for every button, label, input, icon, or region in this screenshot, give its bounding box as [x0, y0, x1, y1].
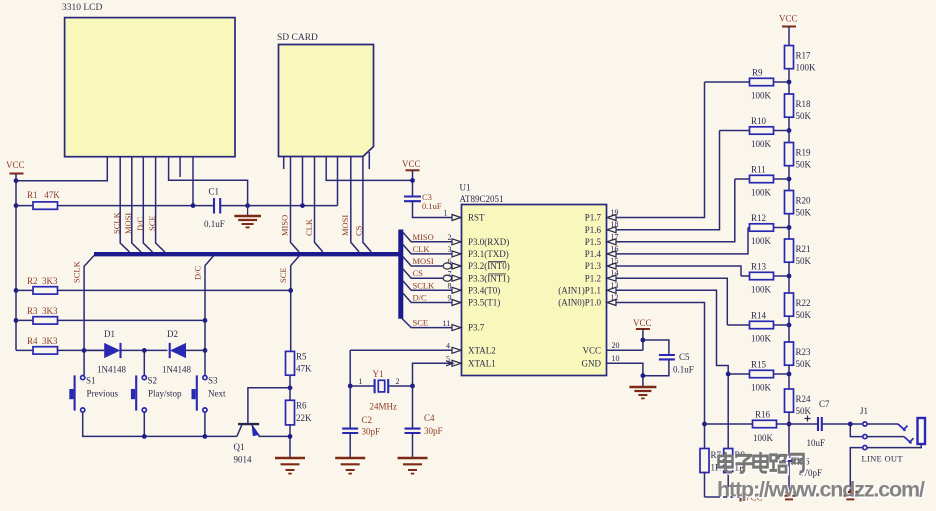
wire SCE vertical from bus	[291, 256, 300, 352]
wire D/C vertical from bus	[205, 256, 214, 376]
svg-text:30pF: 30pF	[424, 426, 443, 436]
svg-text:50K: 50K	[796, 111, 812, 121]
svg-text:R6: R6	[296, 401, 307, 411]
svg-text:P1.4: P1.4	[585, 249, 602, 259]
capacitor C5 0.1uF	[643, 340, 694, 376]
svg-text:VCC: VCC	[402, 159, 421, 169]
svg-text:R12: R12	[751, 213, 766, 223]
svg-text:100K: 100K	[751, 139, 772, 149]
svg-text:P1.5: P1.5	[585, 237, 602, 247]
resistor R23	[785, 342, 812, 389]
watermark URL http://www.cndzz.com/	[717, 477, 927, 503]
power symbol VCC (ladder top)	[779, 14, 798, 46]
node C7 / J1 junction	[848, 422, 853, 427]
pin wedge P1.5	[607, 239, 616, 245]
svg-text:GND: GND	[582, 359, 602, 369]
svg-text:R2 3K3: R2 3K3	[27, 276, 58, 286]
resistor R11	[735, 165, 789, 198]
pin wedge P3.0	[452, 239, 461, 245]
ground (C6)	[778, 492, 800, 499]
resistor R12	[748, 213, 789, 246]
resistor R21	[785, 239, 812, 293]
wire bus entry MOSI to P3.2	[403, 257, 443, 267]
pin wedge P3.3	[452, 275, 461, 281]
wire P1.3 to R13	[616, 266, 741, 276]
crystal Y1 24MHz	[350, 369, 412, 412]
node VCC rail / R1 junction	[14, 203, 19, 208]
svg-text:100K: 100K	[751, 285, 772, 295]
svg-text:1: 1	[359, 377, 363, 386]
node GND / C5 bottom junction	[641, 373, 646, 378]
ground (J1)	[839, 492, 861, 499]
svg-text:R10: R10	[751, 116, 767, 126]
svg-text:3: 3	[448, 245, 452, 254]
svg-text:P1.2: P1.2	[585, 273, 601, 283]
svg-text:R3 3K3: R3 3K3	[27, 306, 58, 316]
svg-text:4: 4	[446, 342, 450, 351]
resistor R13	[741, 262, 789, 295]
wire bus entry SCE to P3.7	[402, 318, 453, 328]
svg-text:MISO: MISO	[280, 215, 290, 236]
ground (below R6)	[275, 458, 305, 474]
node diode row / S2 junction	[142, 348, 147, 353]
wire bus entry D/C to P3.5	[403, 293, 452, 303]
svg-text:R4 3K3: R4 3K3	[27, 336, 58, 346]
node SCLK / diode row junction	[82, 348, 87, 353]
svg-text:R20: R20	[796, 196, 812, 206]
svg-text:R22: R22	[796, 298, 811, 308]
resistor R10	[720, 116, 790, 149]
svg-text:VCC: VCC	[6, 160, 25, 170]
resistor R9	[705, 68, 790, 101]
pin wedge P3.1	[452, 251, 461, 257]
svg-text:P1.6: P1.6	[585, 225, 602, 235]
node VCC / SD wire junction	[410, 178, 415, 183]
svg-text:100K: 100K	[751, 188, 772, 198]
resistor R16	[705, 410, 790, 444]
switch S3 Next	[192, 375, 226, 412]
svg-text:R9: R9	[752, 68, 763, 78]
capacitor C4 30pF	[405, 386, 443, 458]
svg-text:2: 2	[396, 377, 400, 386]
diamond P3.2	[443, 263, 451, 269]
LCD block 3310 LCD	[62, 3, 235, 157]
svg-text:50K: 50K	[796, 256, 812, 266]
node VCC / C5 top junction	[641, 338, 646, 343]
wire P1.1 to R15 and R8	[616, 290, 728, 448]
svg-text:LINE OUT: LINE OUT	[862, 454, 904, 464]
svg-text:R13: R13	[751, 262, 767, 272]
wire SD pin9 stub	[368, 152, 370, 169]
svg-text:MOSI: MOSI	[413, 256, 434, 266]
svg-text:P3.4(T0): P3.4(T0)	[468, 286, 500, 296]
svg-text:D/C: D/C	[413, 293, 428, 303]
node C1 / ground junction	[245, 203, 250, 208]
pin wedge P1.6	[607, 227, 616, 233]
wire SD pin5 to VCC	[326, 157, 412, 181]
wire SD pin2 MISO with bus entry	[291, 157, 300, 252]
wire bus entry CS to P3.3	[403, 269, 443, 279]
resistor R14	[727, 311, 789, 344]
bus horizontal	[94, 252, 403, 256]
svg-text:J1: J1	[860, 406, 868, 416]
wire bus entry MISO to P3.0	[403, 232, 452, 242]
svg-text:0.1uF: 0.1uF	[422, 201, 442, 211]
resistor R17	[785, 46, 817, 95]
wire SD pin1 stub	[283, 157, 285, 170]
svg-text:R19: R19	[796, 148, 812, 158]
svg-text:P1.3: P1.3	[585, 261, 602, 271]
svg-text:50K: 50K	[796, 310, 812, 320]
svg-text:C1: C1	[209, 187, 220, 197]
svg-text:SCLK: SCLK	[413, 280, 436, 290]
svg-text:U1: U1	[460, 183, 471, 193]
wire P1.0 to R16 and R7	[616, 303, 705, 449]
wire LCD pin1 to VCC rail	[16, 157, 107, 181]
capacitor C7 10uF polarized	[789, 399, 850, 448]
svg-text:D1: D1	[104, 329, 115, 339]
bus vertical	[398, 230, 403, 319]
pin wedge P1.3	[607, 263, 616, 269]
svg-text:100K: 100K	[751, 334, 772, 344]
svg-text:D2: D2	[167, 329, 178, 339]
svg-text:10uF: 10uF	[807, 438, 826, 448]
node R21 / R13 junction	[787, 274, 792, 279]
pin name P3.2(INT0) with overline	[468, 261, 510, 271]
svg-text:100K: 100K	[796, 63, 817, 73]
svg-text:P1.7: P1.7	[585, 213, 602, 223]
svg-text:CLK: CLK	[304, 218, 314, 236]
node R23 / R15 junction	[787, 372, 792, 377]
wire P1.4 to R12	[616, 228, 748, 254]
svg-text:C2: C2	[362, 415, 373, 425]
wire LCD pin2 SCLK with bus entry	[120, 157, 129, 252]
capacitor C3	[404, 192, 452, 218]
svg-text:D/C: D/C	[135, 217, 145, 232]
svg-text:100K: 100K	[751, 383, 772, 393]
svg-text:XTAL2: XTAL2	[468, 346, 496, 356]
resistor R7	[700, 449, 722, 498]
wire bus entry CLK to P3.1	[403, 244, 452, 254]
svg-text:S3: S3	[208, 376, 218, 386]
svg-text:3310 LCD: 3310 LCD	[62, 3, 103, 13]
svg-text:P3.0(RXD): P3.0(RXD)	[468, 237, 509, 247]
node SCE / R2 junction	[288, 288, 293, 293]
svg-text:R14: R14	[751, 311, 767, 321]
svg-text:R1 47K: R1 47K	[27, 190, 60, 200]
svg-text:50K: 50K	[796, 160, 812, 170]
resistor R3	[16, 306, 205, 324]
node collector / R5-R6 junction	[288, 385, 293, 390]
svg-text:1N4148: 1N4148	[97, 365, 126, 375]
svg-text:24MHz: 24MHz	[370, 402, 398, 412]
svg-text:2: 2	[448, 233, 452, 242]
pin wedge P1.2	[607, 275, 616, 281]
resistor R22	[785, 293, 812, 342]
node R17 / R9 junction	[787, 80, 792, 85]
resistor R5	[286, 351, 313, 400]
node D/C / diode row junction	[203, 348, 208, 353]
svg-text:VCC: VCC	[582, 346, 601, 356]
svg-text:MOSI: MOSI	[123, 213, 133, 234]
node D/C / R3 junction	[203, 318, 208, 323]
resistor R8	[724, 449, 746, 498]
wire LCD pin3 MOSI with bus entry	[132, 157, 141, 252]
svg-text:MISO: MISO	[413, 232, 434, 242]
svg-text:SCE: SCE	[278, 267, 288, 283]
capacitor C2 30pF	[342, 386, 380, 458]
power symbol VCC (U1 pin 20)	[633, 318, 652, 350]
pin wedge P1.1	[607, 287, 616, 293]
svg-text:SCLK: SCLK	[72, 260, 82, 283]
svg-text:9014: 9014	[234, 455, 253, 465]
svg-text:CLK: CLK	[413, 244, 431, 254]
svg-text:30pF: 30pF	[362, 427, 381, 437]
svg-text:R15: R15	[751, 360, 767, 370]
wire bus entry SCLK to P3.4	[403, 281, 452, 291]
node crystal left junction	[348, 384, 353, 389]
svg-text:47K: 47K	[296, 364, 312, 374]
power symbol VCC (left)	[6, 160, 25, 181]
wire SD pin3 to RST row	[302, 157, 304, 206]
svg-text:C7: C7	[819, 399, 830, 409]
op-amp U1 AT89C2051 (MCU block)	[460, 183, 607, 376]
node crystal right junction	[410, 384, 415, 389]
wire LCD pin7 stub	[179, 157, 181, 177]
capacitor C1	[204, 187, 338, 230]
svg-text:SCE: SCE	[147, 215, 157, 231]
svg-text:100K: 100K	[753, 433, 774, 443]
SD CARD block	[277, 33, 374, 157]
svg-text:Next: Next	[208, 389, 226, 399]
pin wedge P3.2	[452, 263, 461, 269]
wire P1.2 to R14	[616, 278, 727, 325]
node R19 / R11 junction	[787, 177, 792, 182]
svg-text:100K: 100K	[751, 91, 772, 101]
ground (C1)	[234, 206, 261, 228]
svg-text:Y1: Y1	[373, 369, 384, 379]
watermark CJK text 电子电路网 (gray layer)	[719, 452, 804, 472]
node S3 bottom rail junction	[203, 434, 208, 439]
svg-text:(AIN0)P1.0: (AIN0)P1.0	[558, 298, 601, 308]
svg-text:22K: 22K	[296, 413, 312, 423]
svg-text:AT89C2051: AT89C2051	[460, 194, 504, 204]
svg-text:P3.1(TXD): P3.1(TXD)	[468, 249, 509, 259]
svg-text:SCE: SCE	[413, 318, 429, 328]
node VCC rail / LCD pin1 junction	[14, 178, 19, 183]
svg-text:P3.3(INT1): P3.3(INT1)	[468, 273, 510, 283]
wire SD pin6 down to RST row	[337, 157, 339, 206]
pin wedge P1.0	[607, 300, 616, 306]
svg-text:C5: C5	[679, 352, 690, 362]
wire SD pin4 CLK with bus entry	[315, 157, 323, 252]
svg-text:S2: S2	[148, 376, 158, 386]
ground (C2)	[335, 458, 365, 474]
node emitter / R6 bottom junction	[288, 434, 293, 439]
svg-text:(AIN1)P1.1: (AIN1)P1.1	[558, 286, 601, 296]
pin wedge P1.4	[607, 251, 616, 257]
diode D2 1N4148	[162, 329, 205, 375]
svg-text:9: 9	[448, 294, 452, 303]
pin wedge XTAL2	[452, 347, 461, 353]
node R24 / R16 junction	[787, 422, 792, 427]
svg-text:CS: CS	[354, 225, 364, 236]
svg-text:50K: 50K	[796, 359, 812, 369]
connector J1	[850, 406, 925, 492]
svg-text:P3.2(INT0): P3.2(INT0)	[468, 261, 510, 271]
switch S1 Previous	[69, 375, 118, 412]
svg-text:10: 10	[612, 354, 620, 363]
wire LCD pin6+pin8 tie to RST row	[169, 157, 248, 206]
node P1.1 / R15 junction	[726, 372, 731, 377]
svg-text:D/C: D/C	[193, 266, 203, 281]
wire switches bottom rail	[83, 412, 237, 436]
power symbol VCC (bottom rail)	[741, 493, 763, 503]
svg-text:R16: R16	[755, 410, 771, 420]
diode D1 1N4148	[84, 329, 167, 375]
svg-text:0.1uF: 0.1uF	[673, 365, 694, 375]
svg-text:CS: CS	[413, 268, 424, 278]
resistor R15	[728, 360, 789, 393]
svg-text:P3.7: P3.7	[468, 323, 485, 333]
svg-text:R18: R18	[796, 99, 812, 109]
svg-text:50K: 50K	[796, 208, 812, 218]
svg-text:VCC: VCC	[633, 318, 652, 328]
wire SD pin7 MOSI with bus entry	[351, 157, 359, 252]
wire P1.6 to R10	[616, 131, 720, 230]
wire XTAL1 to crystal	[413, 363, 453, 386]
wire P1.5 to R11	[616, 179, 735, 242]
transistor Q1 9014	[234, 388, 291, 465]
svg-text:XTAL1: XTAL1	[468, 359, 496, 369]
resistor R18	[785, 94, 812, 143]
svg-text:C4: C4	[424, 413, 435, 423]
svg-text:P3.5(T1): P3.5(T1)	[468, 298, 500, 308]
svg-text:SD CARD: SD CARD	[277, 33, 318, 43]
node VCC rail / R2 junction	[14, 288, 19, 293]
svg-text:1: 1	[444, 209, 448, 218]
wire U1 GND pin 10	[607, 363, 643, 386]
pin wedge XTAL1 (double)	[446, 360, 461, 366]
svg-text:MOSI: MOSI	[340, 215, 350, 236]
wire P1.7 to R9	[616, 82, 705, 218]
diamond P3.3	[443, 275, 451, 281]
resistor R24	[785, 389, 812, 456]
pin wedge P3.4	[452, 287, 461, 293]
resistor R2	[16, 276, 291, 294]
wire R7/R8 bottom rail	[705, 496, 741, 498]
resistor R4	[16, 336, 104, 354]
wire SCLK vertical from bus	[84, 256, 94, 376]
resistor R1	[16, 190, 214, 209]
svg-text:RST: RST	[468, 213, 485, 223]
wire LCD pin4 D/C with bus entry	[143, 157, 152, 252]
svg-text:R23: R23	[796, 347, 812, 357]
node LCD pin8 / RST row junction	[191, 203, 196, 208]
svg-text:Previous: Previous	[87, 389, 119, 399]
node S2 bottom rail junction	[142, 434, 147, 439]
node R18 / R10 junction	[787, 128, 792, 133]
svg-text:0.1uF: 0.1uF	[204, 219, 225, 229]
wire LCD pin5 SCE with bus entry	[156, 157, 165, 252]
svg-text:Q1: Q1	[234, 442, 245, 452]
pin wedge P1.7	[607, 215, 616, 221]
svg-text:100K: 100K	[751, 236, 772, 246]
pin wedge P3.5	[452, 300, 461, 306]
svg-text:20: 20	[612, 341, 620, 350]
wire SD pin8 CS with bus entry	[363, 157, 371, 252]
svg-text:VCC: VCC	[779, 14, 798, 24]
svg-text:R5: R5	[296, 352, 307, 362]
watermark CJK glyphs (white emboss layer)	[720, 454, 805, 474]
svg-text:R17: R17	[796, 51, 812, 61]
capacitor C6 470pF	[782, 457, 822, 492]
svg-text:11: 11	[443, 319, 451, 328]
ground (C4)	[398, 458, 428, 474]
wire VCC rail left	[15, 181, 17, 350]
wire U1 VCC pin 20	[607, 349, 643, 351]
ground (U1 GND)	[629, 387, 656, 398]
node R20 / R12 junction	[787, 225, 792, 230]
svg-text:R11: R11	[751, 165, 766, 175]
resistor R6	[286, 400, 313, 457]
svg-text:R21: R21	[796, 244, 811, 254]
svg-text:Play/stop: Play/stop	[148, 389, 182, 399]
wire LCD pin8	[192, 157, 194, 206]
switch S2 Play/stop	[131, 350, 182, 412]
resistor R19	[785, 143, 812, 191]
pin wedge P3.7	[452, 325, 461, 331]
pin wedge RST	[452, 215, 461, 221]
node SD pin3 / RST row junction	[300, 203, 305, 208]
svg-text:50K: 50K	[796, 406, 812, 416]
node R16 left / R7 junction	[702, 422, 707, 427]
svg-text:1N4148: 1N4148	[162, 365, 191, 375]
node VCC rail / R3 junction	[14, 318, 19, 323]
pin name P3.3(INT1) with overline	[468, 273, 510, 283]
resistor R20	[785, 191, 812, 240]
power symbol VCC (C3)	[402, 159, 421, 196]
svg-text:R24: R24	[796, 394, 812, 404]
node R22 / R14 junction	[787, 323, 792, 328]
svg-text:http://www.cndzz.com/: http://www.cndzz.com/	[717, 477, 925, 501]
svg-text:SCLK: SCLK	[112, 211, 122, 234]
svg-text:S1: S1	[86, 376, 96, 386]
svg-text:8: 8	[448, 282, 452, 291]
wire XTAL2 to crystal	[350, 350, 452, 386]
